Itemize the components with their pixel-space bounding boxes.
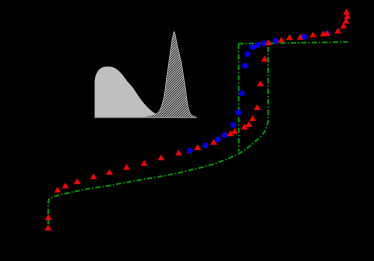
inset: baseline axis (94, 117, 196, 119)
red adsorption data points (45, 9, 351, 231)
blue desorption point drawn over red (302, 34, 308, 40)
green dash-dot desorption vertical (238, 44, 240, 152)
green dash-dot top branch (horizontal) (238, 42, 347, 44)
green dash-dot theory curve: main isotherm branch (48, 43, 268, 224)
blue desorption data points (187, 31, 331, 154)
inset: broad pore-size distribution (solid gray) (95, 67, 166, 118)
inset: narrow peak (hatched) (141, 32, 196, 118)
